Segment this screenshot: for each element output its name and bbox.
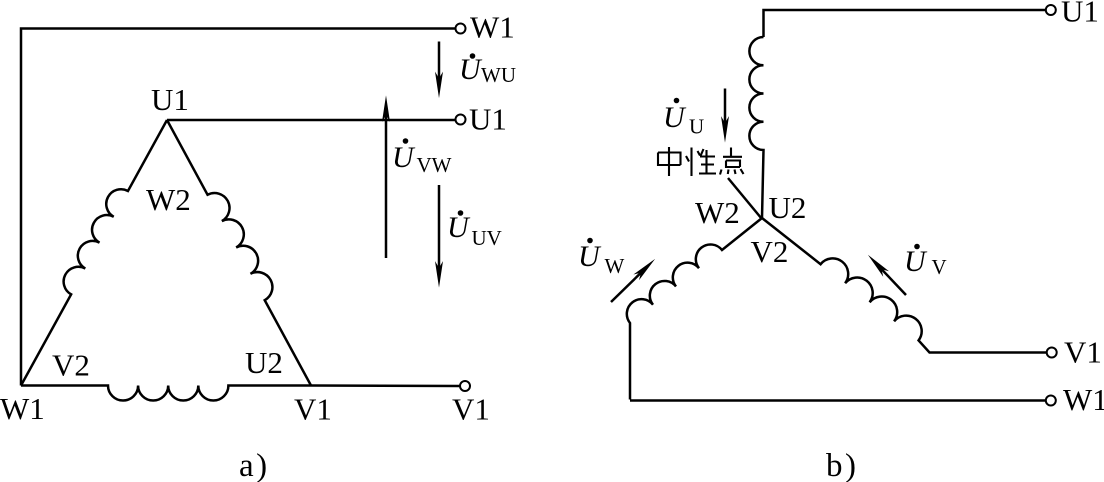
svg-text:VW: VW xyxy=(417,153,452,177)
svg-text:V: V xyxy=(932,255,947,279)
arrow U_WU shaft xyxy=(438,42,441,80)
arrow U_UV head xyxy=(435,261,443,288)
label U_VW xyxy=(392,138,452,177)
arrow U_VW head xyxy=(382,95,390,122)
arrow U_U head xyxy=(721,116,729,143)
svg-text:V2: V2 xyxy=(52,348,90,383)
char 性 xyxy=(686,148,716,177)
terminal V1 (b) xyxy=(1047,348,1057,358)
terminal U1 (a) xyxy=(456,115,466,125)
arrow U_V shaft xyxy=(881,268,906,295)
svg-text:W1: W1 xyxy=(0,391,45,426)
label U_WU xyxy=(459,53,516,87)
svg-text:U1: U1 xyxy=(1061,0,1099,29)
svg-text:V1: V1 xyxy=(1064,335,1102,370)
arrow U_VW shaft xyxy=(385,114,388,258)
terminal W1 (b) xyxy=(1046,396,1056,406)
svg-text:U: U xyxy=(663,101,687,134)
wire: apex to U1 terminal xyxy=(167,119,455,122)
svg-text:U: U xyxy=(578,240,602,273)
leader line from 中性点 to star node xyxy=(728,178,762,219)
svg-text:a): a) xyxy=(239,448,270,482)
char 点 xyxy=(720,148,744,175)
svg-text:V2: V2 xyxy=(751,234,789,269)
terminal U1 (b) xyxy=(1046,5,1056,15)
char 中 xyxy=(658,147,681,176)
svg-text:W2: W2 xyxy=(695,195,740,230)
terminal W1 (a) xyxy=(456,24,466,34)
svg-text:U2: U2 xyxy=(769,190,807,225)
svg-text:U: U xyxy=(904,245,928,278)
svg-text:U: U xyxy=(689,115,704,139)
wire: W phase bottom to W1 terminal (b) xyxy=(630,399,1045,402)
winding U phase (b): vertical coil xyxy=(749,37,763,218)
wire: left vertical + top horizontal of delta, W1 corner to W1 terminal xyxy=(21,29,455,386)
svg-text:W1: W1 xyxy=(470,10,515,45)
svg-text:U1: U1 xyxy=(151,82,189,117)
arrow U_UV shaft xyxy=(438,185,441,269)
label U_UV xyxy=(447,210,502,250)
svg-text:W1: W1 xyxy=(1063,382,1104,417)
svg-text:WU: WU xyxy=(481,63,516,87)
label U_V xyxy=(904,244,947,279)
svg-text:W2: W2 xyxy=(146,182,191,217)
svg-text:U1: U1 xyxy=(469,102,507,137)
svg-text:UV: UV xyxy=(472,226,502,250)
winding W2 (a): left side of delta, apex to W1 corner xyxy=(21,120,167,386)
svg-text:b): b) xyxy=(826,448,859,482)
svg-text:V1: V1 xyxy=(294,392,332,427)
arrow U_WU head xyxy=(435,72,443,99)
winding V2 (a): bottom side of delta xyxy=(21,386,311,401)
arrow U_W shaft xyxy=(611,272,642,302)
label U_W xyxy=(578,238,625,278)
svg-text:V1: V1 xyxy=(452,392,490,427)
winding W phase (b): node to lower-left coil xyxy=(627,218,762,400)
svg-text:W: W xyxy=(605,254,625,278)
wire: star U phase top elbow to U1 terminal (b) xyxy=(764,10,1046,37)
winding U2 (a): right side of delta, apex to V1 corner xyxy=(167,120,311,386)
svg-text:U2: U2 xyxy=(245,345,283,380)
arrow U_W head xyxy=(633,259,655,280)
terminal V1 (a) xyxy=(460,381,470,391)
label U_U xyxy=(663,98,704,139)
winding V phase (b): node to lower-right coil xyxy=(762,218,1046,353)
arrow U_V head xyxy=(868,255,889,277)
label 中性点 (neutral point) drawn as strokes xyxy=(658,147,744,176)
svg-text:U: U xyxy=(392,141,416,174)
arrow U_U shaft xyxy=(724,89,727,125)
svg-text:U: U xyxy=(447,211,471,244)
wire: V1 corner to V1 terminal (a) xyxy=(311,384,460,387)
